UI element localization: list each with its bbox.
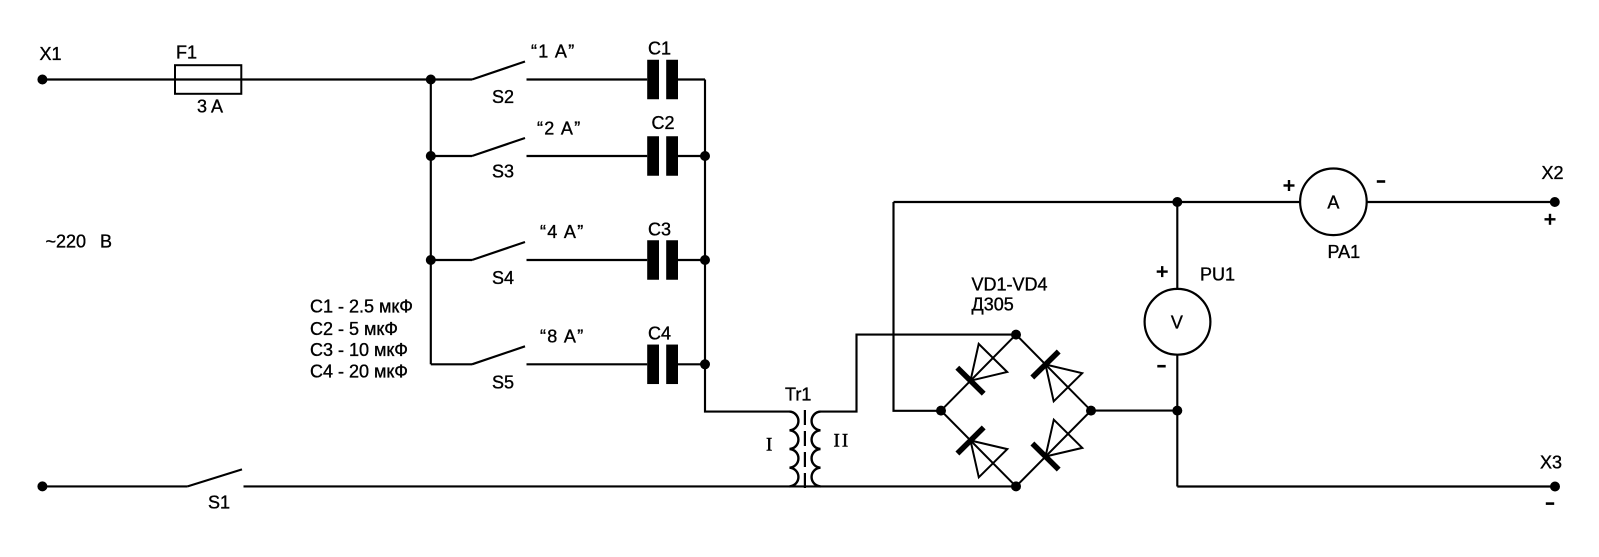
- svg-text:S2: S2: [492, 87, 514, 107]
- svg-text:S5: S5: [492, 372, 514, 392]
- svg-text:“4 A”: “4 A”: [540, 222, 585, 242]
- svg-text:C2 - 5 мкФ: C2 - 5 мкФ: [310, 319, 398, 339]
- svg-text:“1 A”: “1 A”: [531, 42, 576, 62]
- svg-text:PA1: PA1: [1328, 242, 1361, 262]
- svg-text:S3: S3: [492, 162, 514, 182]
- svg-text:C4 - 20 мкФ: C4 - 20 мкФ: [310, 361, 408, 381]
- svg-text:V: V: [1171, 313, 1183, 333]
- svg-text:F1: F1: [176, 43, 197, 63]
- svg-text:C4: C4: [648, 324, 671, 344]
- svg-text:C3: C3: [648, 220, 671, 240]
- svg-text:VD1-VD4: VD1-VD4: [972, 275, 1048, 295]
- svg-text:X3: X3: [1540, 453, 1562, 473]
- svg-text:PU1: PU1: [1200, 265, 1235, 285]
- svg-text:Tr1: Tr1: [785, 385, 811, 405]
- svg-text:A: A: [1327, 193, 1339, 213]
- svg-text:S1: S1: [208, 493, 230, 513]
- svg-text:S4: S4: [492, 268, 514, 288]
- svg-text:X1: X1: [40, 44, 62, 64]
- svg-text:C1: C1: [648, 39, 671, 59]
- svg-text:“2 A”: “2 A”: [537, 119, 582, 139]
- svg-text:3 A: 3 A: [197, 97, 223, 117]
- svg-text:C1 - 2.5 мкФ: C1 - 2.5 мкФ: [310, 297, 413, 317]
- svg-text:II: II: [834, 431, 851, 452]
- svg-text:I: I: [766, 435, 772, 456]
- svg-text:“8 A”: “8 A”: [540, 326, 585, 346]
- svg-text:C2: C2: [652, 113, 675, 133]
- svg-text:X2: X2: [1542, 163, 1564, 183]
- svg-text:Д305: Д305: [972, 295, 1014, 315]
- svg-text:C3 - 10 мкФ: C3 - 10 мкФ: [310, 340, 408, 360]
- svg-text:~220 В: ~220 В: [46, 232, 113, 252]
